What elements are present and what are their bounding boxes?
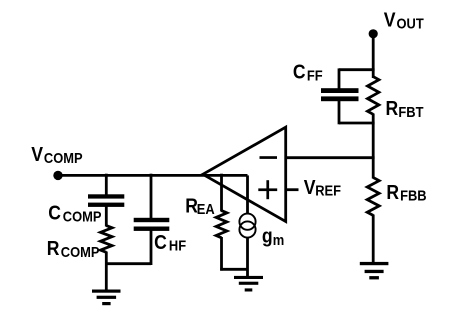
svg-text:FBB: FBB bbox=[400, 188, 427, 205]
svg-text:m: m bbox=[273, 232, 285, 249]
svg-text:FF: FF bbox=[307, 67, 323, 84]
resistor REA bbox=[216, 211, 227, 238]
wire gm bottom bbox=[246, 237, 249, 277]
label RFBT bbox=[386, 97, 424, 121]
label CFF bbox=[293, 61, 323, 85]
wire REA bottom bbox=[220, 237, 223, 271]
op-amp inverting input marker bbox=[260, 156, 278, 159]
svg-text:FBT: FBT bbox=[398, 104, 423, 121]
wire non-inverting input stub bbox=[286, 188, 299, 191]
label RCOMP bbox=[47, 237, 100, 261]
svg-text:COMP: COMP bbox=[61, 244, 100, 261]
wire CHF branch top bbox=[150, 174, 153, 218]
wire RCOMP to ground bbox=[105, 252, 108, 292]
wire RFBB to ground bbox=[372, 215, 375, 264]
wire REA branch top bbox=[220, 174, 223, 212]
svg-text:OUT: OUT bbox=[397, 16, 424, 33]
svg-text:R: R bbox=[386, 97, 399, 120]
current source gm bbox=[239, 214, 255, 238]
wire gm branch top bbox=[246, 175, 249, 214]
resistor RCOMP bbox=[101, 226, 113, 253]
wire junction REA to gm bbox=[220, 268, 247, 271]
op-amp non-inverting input marker bbox=[258, 180, 277, 199]
label CHF bbox=[154, 231, 186, 255]
label VOUT bbox=[384, 8, 424, 32]
label gm bbox=[262, 225, 284, 249]
label VREF bbox=[304, 176, 341, 200]
resistor RFBB bbox=[367, 178, 379, 216]
svg-text:REF: REF bbox=[315, 182, 341, 199]
capacitor CFF bbox=[321, 88, 359, 101]
svg-text:V: V bbox=[384, 8, 396, 31]
label VCOMP bbox=[31, 143, 82, 167]
svg-text:V: V bbox=[304, 176, 316, 199]
capacitor CCOMP bbox=[88, 194, 124, 207]
wire op-amp output to gm branch bbox=[203, 174, 248, 177]
capacitor CHF bbox=[134, 218, 170, 231]
wire VOUT down bbox=[372, 34, 375, 78]
svg-text:C: C bbox=[293, 61, 306, 84]
wire RFBT to RFBB bbox=[372, 114, 375, 179]
wire CFF top bbox=[339, 68, 375, 88]
ground middle bbox=[234, 276, 263, 292]
op-amp U1 error amplifier bbox=[203, 127, 286, 221]
wire VCOMP to op-amp output bbox=[58, 174, 203, 177]
node VCOMP bbox=[53, 171, 62, 180]
label RFBB bbox=[386, 181, 426, 205]
svg-text:EA: EA bbox=[197, 201, 215, 218]
svg-text:V: V bbox=[31, 143, 43, 166]
svg-text:HF: HF bbox=[169, 238, 186, 255]
svg-text:COMP: COMP bbox=[63, 208, 102, 225]
wire CFF bottom bbox=[339, 101, 375, 125]
wire inverting input to feedback node bbox=[286, 156, 375, 159]
label CCOMP bbox=[48, 202, 101, 226]
wire CCOMP to RCOMP bbox=[105, 207, 108, 227]
svg-text:R: R bbox=[386, 181, 399, 204]
svg-text:R: R bbox=[47, 237, 60, 260]
svg-text:g: g bbox=[262, 225, 273, 248]
svg-text:C: C bbox=[48, 202, 61, 225]
ground right bbox=[360, 262, 389, 280]
label REA bbox=[185, 195, 215, 219]
wire CHF bottom bbox=[150, 231, 153, 266]
node VOUT bbox=[369, 29, 378, 38]
wire CCOMP branch top bbox=[105, 174, 108, 195]
svg-text:COMP: COMP bbox=[44, 150, 83, 167]
ground left bbox=[92, 290, 121, 306]
resistor RFBT bbox=[368, 77, 379, 115]
svg-text:C: C bbox=[154, 231, 167, 254]
wire junction RCOMP to CHF bottom bbox=[105, 262, 151, 265]
